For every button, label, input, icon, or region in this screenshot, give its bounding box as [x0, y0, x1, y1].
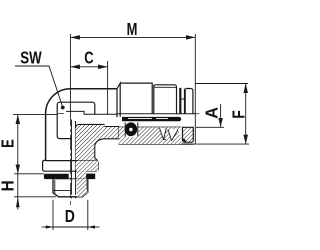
seal washer: left external black [44, 174, 69, 179]
sleeve2 inner groove line [155, 86, 177, 88]
O-ring [125, 122, 138, 136]
M dimension [69, 34, 71, 118]
svg-text:H: H [0, 180, 18, 191]
collet jaw lines [160, 128, 179, 141]
centerline horizontal dash right [194, 113, 200, 115]
svg-text:SW: SW [20, 49, 41, 68]
C dimension [107, 61, 109, 114]
SW leader [15, 66, 63, 108]
stud [53, 179, 88, 197]
section boundary line cartridge [117, 113, 195, 115]
flange [43, 160, 99, 171]
centerline horizontal dash left [58, 112, 65, 114]
svg-text:C: C [84, 49, 93, 69]
sleeve1 top [120, 83, 154, 114]
leg bore wall lines [71, 120, 75, 179]
seal section hatch column [77, 171, 86, 179]
section boundary stepped line [66, 111, 117, 114]
O-ring pocket lines [125, 123, 138, 137]
release ring lower section [183, 127, 194, 142]
cartridge left face lines [117, 83, 120, 117]
D dimension [52, 200, 54, 230]
H dimension [17, 174, 19, 197]
release ring upper [186, 89, 193, 114]
sleeve2 [154, 85, 177, 114]
collet jaw white wedges [160, 128, 167, 140]
hex boss outline [57, 102, 95, 138]
E dimension [13, 114, 57, 116]
svg-text:D: D [65, 206, 75, 226]
svg-text:E: E [0, 139, 18, 148]
A dimension [196, 126, 224, 128]
seal section rubber black [86, 174, 95, 180]
body elbow outer outline [46, 89, 117, 161]
svg-text:A: A [202, 107, 222, 119]
leg + bottom-wall hatch block [75, 124, 118, 171]
F dimension [195, 83, 248, 85]
cartridge bottom wall hatch [119, 127, 182, 144]
collet band [122, 117, 181, 121]
svg-text:F: F [229, 110, 249, 119]
centerline vertical dash-dot [69, 118, 71, 205]
svg-text:M: M [127, 20, 138, 40]
ring collar bars [179, 88, 181, 114]
cartridge bottom wall outline [119, 127, 194, 144]
